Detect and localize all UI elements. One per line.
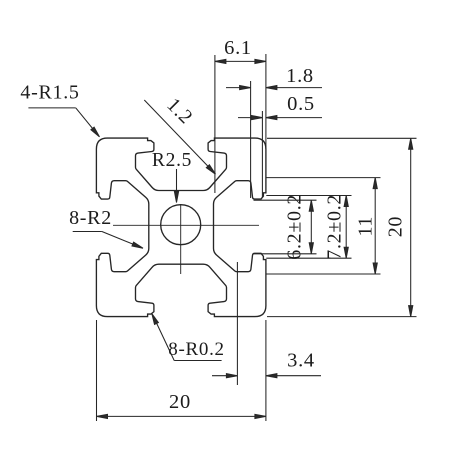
- svg-text:6.1: 6.1: [224, 37, 252, 59]
- svg-text:11: 11: [354, 216, 376, 237]
- svg-text:4-R1.5: 4-R1.5: [20, 82, 79, 104]
- svg-text:R2.5: R2.5: [152, 150, 192, 171]
- svg-text:7.2±0.2: 7.2±0.2: [323, 194, 345, 260]
- svg-text:3.4: 3.4: [287, 350, 315, 372]
- svg-text:20: 20: [384, 216, 406, 237]
- svg-text:8-R0.2: 8-R0.2: [168, 339, 224, 360]
- svg-text:8-R2: 8-R2: [69, 207, 112, 229]
- svg-text:0.5: 0.5: [287, 93, 315, 115]
- svg-text:20: 20: [169, 391, 191, 413]
- svg-text:6.2±0.2: 6.2±0.2: [283, 194, 305, 260]
- svg-text:1.8: 1.8: [286, 65, 314, 87]
